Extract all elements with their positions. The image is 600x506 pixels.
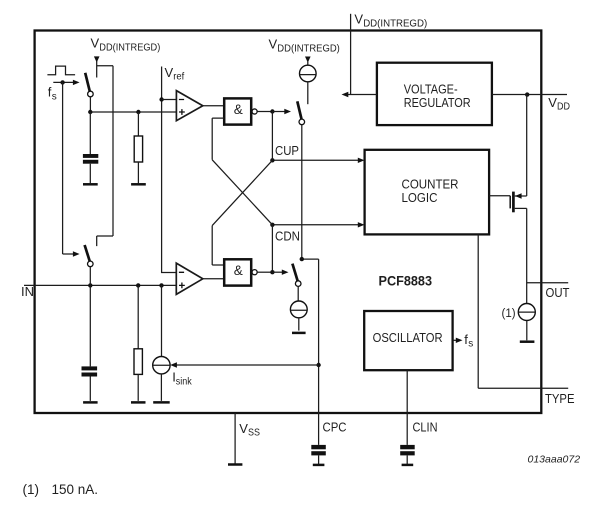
wire CUP to counter logic bbox=[272, 158, 364, 163]
wire VDD(INTREGD) top vertical bbox=[350, 14, 352, 95]
wire S3 down to S4 contact bbox=[301, 125, 303, 259]
ground R1 bbox=[131, 183, 146, 186]
ground C2 bbox=[83, 401, 98, 404]
node rail-C1 bbox=[88, 110, 92, 114]
wire Vref to comparator A1 minus bbox=[162, 99, 177, 101]
label fs bbox=[48, 85, 57, 103]
label fs at oscillator bbox=[464, 332, 473, 350]
node CDN bbox=[270, 223, 274, 227]
wire G1 output arrow to switch S3 bbox=[272, 109, 291, 114]
switch S3 bbox=[297, 101, 304, 124]
wire G2 output arrow to switch S4 bbox=[272, 270, 288, 275]
IC boundary box bbox=[35, 31, 542, 414]
svg-text:OUT: OUT bbox=[546, 285, 570, 300]
svg-text:SS: SS bbox=[248, 428, 260, 439]
wire supply stub to current source I2 bbox=[307, 62, 309, 66]
wire CDN to counter logic bbox=[272, 222, 364, 227]
current source I1 (150 nA) bbox=[518, 304, 535, 321]
AND gate G1 bbox=[224, 98, 257, 124]
node IN-Isink junction bbox=[159, 283, 163, 287]
footnote (1) 150 nA. bbox=[23, 482, 99, 497]
ground I3 bbox=[292, 332, 306, 335]
wire A1 output bbox=[203, 105, 224, 107]
wire VDD from regulator to pin bbox=[492, 94, 567, 96]
svg-text:&: & bbox=[234, 102, 243, 117]
ground C1 bbox=[83, 183, 98, 186]
switch S1 bbox=[85, 73, 93, 97]
wire CLIN from oscillator bbox=[406, 370, 408, 445]
wire I3 to ground bbox=[298, 318, 300, 331]
wire S2 to IN rail bbox=[89, 267, 91, 286]
svg-text:PCF8883: PCF8883 bbox=[379, 273, 433, 288]
pin label VDD bbox=[548, 95, 570, 113]
wire CUP vertical from G1 bbox=[271, 112, 273, 161]
wire regulator output to VDD(INTREGD) with left arrow bbox=[342, 92, 377, 97]
capacitor CLIN external bbox=[400, 445, 415, 465]
wire I2 to switch S3 bbox=[307, 82, 309, 104]
node CUP bbox=[270, 158, 274, 162]
svg-text:CPC: CPC bbox=[323, 419, 347, 434]
svg-text:ref: ref bbox=[173, 72, 184, 83]
ground VSS bbox=[228, 463, 242, 466]
capacitor C2 bbox=[82, 285, 98, 401]
AND gate G2 bbox=[224, 259, 257, 285]
wire oscillator fs output arrow bbox=[453, 338, 463, 343]
switch S4 bbox=[292, 264, 301, 287]
wire cross-coupling CUP to G2 bbox=[212, 160, 272, 265]
capacitor C1 bbox=[83, 112, 98, 183]
svg-text:150 nA.: 150 nA. bbox=[52, 482, 99, 497]
wire fs arrow to switch S2 bbox=[63, 251, 80, 256]
wire A2 output bbox=[203, 278, 224, 280]
net VDD(INTREGD) center label bbox=[269, 37, 340, 55]
svg-text:DD(INTREGD): DD(INTREGD) bbox=[99, 42, 160, 53]
wire Isink feed from CPC node bbox=[170, 362, 318, 367]
wire cross-coupling G1 to CDN bbox=[212, 160, 272, 225]
label Vref bbox=[165, 65, 185, 83]
svg-text:(1): (1) bbox=[23, 482, 40, 497]
pulse waveform symbol fs bbox=[47, 66, 75, 75]
wire M1 drain to VDD node bbox=[526, 95, 528, 196]
pin VSS wire bbox=[234, 413, 236, 464]
counter logic block bbox=[365, 150, 490, 235]
supply arrow left VDD(INTREGD) bbox=[94, 56, 100, 62]
current source Isink bbox=[153, 285, 170, 401]
node VDD junction bbox=[525, 92, 529, 96]
node G2 output junction bbox=[270, 270, 274, 274]
svg-text:REGULATOR: REGULATOR bbox=[404, 95, 471, 110]
wire supply branch down right side bbox=[97, 66, 113, 246]
svg-text:V: V bbox=[239, 421, 248, 436]
resistor R1 bbox=[134, 112, 142, 183]
capacitor CPC external bbox=[311, 445, 326, 465]
svg-text:DD(INTREGD): DD(INTREGD) bbox=[363, 18, 427, 29]
wire M1 source down to OUT bbox=[526, 208, 528, 303]
node G1 output junction bbox=[270, 109, 274, 113]
svg-text:013aaa072: 013aaa072 bbox=[528, 454, 581, 466]
svg-text:CUP: CUP bbox=[275, 143, 299, 158]
svg-text:IN: IN bbox=[21, 284, 34, 299]
ground CLIN cap bbox=[402, 464, 414, 467]
current source I3 bbox=[290, 301, 307, 318]
wire supply stub S1 contact bbox=[96, 61, 98, 78]
wire IN rail bbox=[24, 284, 176, 286]
resistor R2 bbox=[134, 285, 142, 401]
svg-text:LOGIC: LOGIC bbox=[402, 190, 438, 205]
comparator A2 bbox=[176, 263, 203, 294]
ground Isink bbox=[153, 401, 170, 404]
wire TYPE from counter logic bbox=[478, 234, 568, 388]
svg-text:TYPE: TYPE bbox=[545, 391, 575, 406]
wire G1 output bbox=[257, 111, 272, 113]
wire G1 feedback input bbox=[212, 118, 224, 160]
node Vref upper comparator bbox=[159, 97, 163, 101]
pin label VSS bbox=[239, 421, 260, 439]
wire S1 to upper rail bbox=[89, 97, 91, 112]
svg-text:V: V bbox=[91, 36, 100, 51]
transistor M1 gate wire bbox=[489, 195, 510, 197]
switch S2 bbox=[85, 245, 94, 267]
wire fs down to switch S2 bbox=[62, 82, 64, 254]
comparator A1 bbox=[176, 91, 202, 121]
wire G2 output bbox=[257, 271, 272, 273]
wire upper rail to comparator bbox=[90, 111, 176, 113]
wire CDN vertical to G2 output bbox=[271, 225, 273, 272]
svg-text:V: V bbox=[548, 95, 557, 110]
label Isink bbox=[172, 369, 192, 387]
svg-text:CLIN: CLIN bbox=[413, 419, 438, 434]
oscillator block bbox=[364, 311, 452, 370]
svg-text:OSCILLATOR: OSCILLATOR bbox=[373, 330, 443, 345]
ground CPC cap bbox=[313, 464, 325, 467]
svg-text:V: V bbox=[269, 37, 278, 52]
supply arrow center VDD(INTREGD) bbox=[305, 57, 311, 63]
node CPC Isink tap bbox=[316, 363, 320, 367]
svg-text:CDN: CDN bbox=[275, 228, 300, 243]
wire fs arrow to switch S1 bbox=[53, 80, 79, 85]
svg-text:sink: sink bbox=[176, 377, 193, 388]
node S4 contact bbox=[300, 257, 304, 261]
net VDD(INTREGD) top label bbox=[354, 12, 427, 30]
node IN-resistor junction bbox=[136, 283, 140, 287]
transistor M1 bbox=[510, 192, 527, 213]
svg-text:DD: DD bbox=[557, 102, 570, 113]
svg-text:s: s bbox=[468, 339, 473, 350]
wire S4 to current source I3 bbox=[297, 286, 299, 301]
svg-text:DD(INTREGD): DD(INTREGD) bbox=[277, 43, 340, 54]
wire OUT bbox=[527, 282, 569, 284]
voltage regulator block bbox=[377, 63, 492, 125]
ground OUT source bbox=[520, 340, 535, 343]
wire Vref vertical bbox=[162, 67, 177, 273]
wire I1 to ground bbox=[526, 321, 528, 341]
node fs branch bbox=[60, 80, 64, 84]
svg-text:(1): (1) bbox=[502, 308, 516, 320]
ground R2 bbox=[131, 401, 146, 404]
net VDD(INTREGD) left label bbox=[91, 36, 161, 54]
svg-text:s: s bbox=[52, 91, 57, 102]
wire CPC vertical bbox=[302, 259, 319, 445]
svg-text:&: & bbox=[234, 263, 243, 278]
svg-text:V: V bbox=[165, 65, 174, 80]
node IN-switch junction bbox=[88, 283, 92, 287]
svg-text:V: V bbox=[354, 12, 363, 27]
node rail-R1 bbox=[136, 110, 140, 114]
current source I2 bbox=[300, 65, 317, 82]
